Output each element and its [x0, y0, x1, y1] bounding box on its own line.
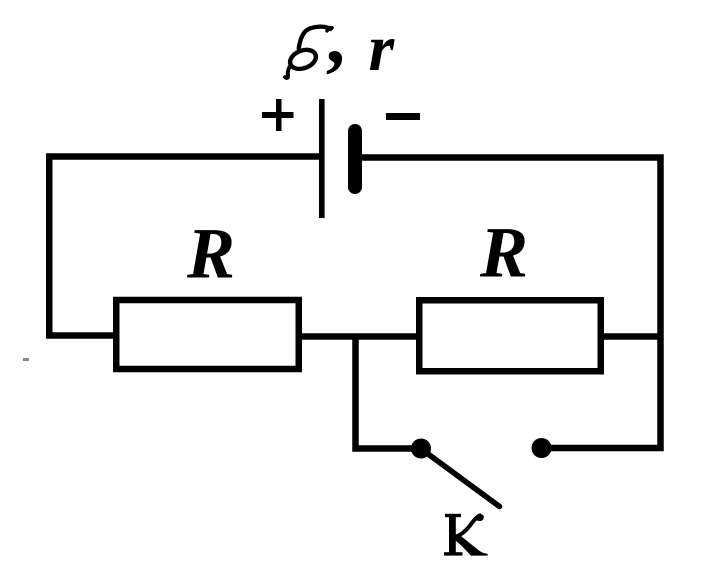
- battery U1 positive plate (long thin): [319, 99, 325, 218]
- battery minus sign: [386, 113, 420, 120]
- wire left loop (top-left segment, left vertical, stub to R1): [49, 157, 321, 336]
- wire R2 right edge to right vertical: [601, 333, 658, 340]
- switch label K: [444, 514, 488, 556]
- svg-text:R: R: [186, 214, 235, 294]
- resistor R2 body: [419, 300, 601, 371]
- wire middle between R1 and R2: [299, 333, 419, 340]
- wire right loop (top-right segment, right vertical, to switch right node): [361, 158, 661, 449]
- resistor R1 body: [116, 300, 299, 369]
- battery label script-E (EMF): [285, 27, 332, 78]
- svg-text:r: r: [369, 12, 396, 85]
- wire switch drop vertical from middle wire: [356, 334, 414, 449]
- node switch left terminal: [411, 439, 431, 459]
- scan speck artifact: [23, 358, 29, 361]
- battery U1 negative plate (short thick): [348, 124, 362, 194]
- battery plus sign: [262, 99, 294, 131]
- switch K lever (open): [424, 451, 500, 507]
- svg-text:R: R: [479, 213, 528, 293]
- node switch right terminal: [532, 438, 552, 458]
- svg-text:,: ,: [326, 0, 345, 80]
